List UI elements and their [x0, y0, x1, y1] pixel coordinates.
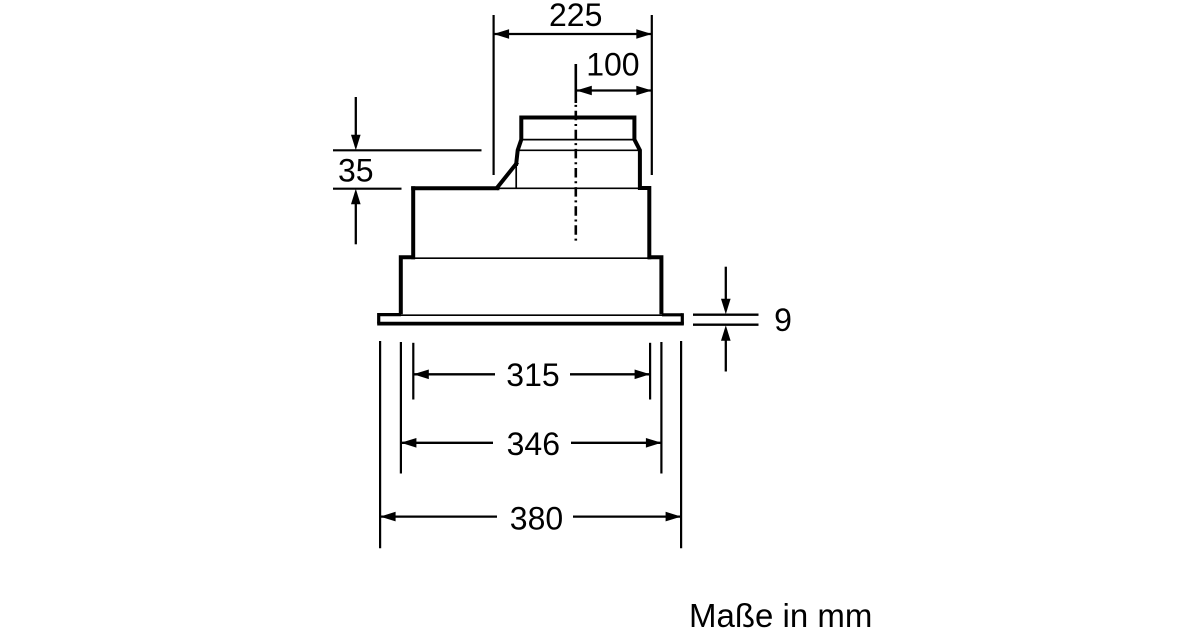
bottom extension line x380 right [680, 341, 682, 548]
dim 346 right arrowhead [646, 438, 662, 448]
wider box top edge (thin) [414, 257, 649, 259]
dim 315 dimension line left segment [413, 373, 495, 375]
wider box left step and edge (thick) [401, 257, 415, 314]
flange top edge right (thick) [662, 313, 682, 316]
svg-text:315: 315 [506, 357, 559, 393]
centerline (dash-dot vertical axis) [574, 64, 577, 244]
upper box top edge under collar (thin) [497, 187, 640, 189]
flange bottom edge (thick) [377, 322, 684, 326]
svg-text:380: 380 [510, 500, 563, 536]
dim 9 upper line [693, 314, 759, 316]
collar inner edge vertical (thin) [515, 164, 517, 189]
dim 100 right arrowhead [636, 86, 652, 96]
dim 35 lower arrow shaft [355, 202, 357, 244]
svg-text:225: 225 [549, 0, 602, 33]
dim 9 lower arrow shaft [725, 339, 727, 372]
bottom extension line x315 left [412, 343, 414, 400]
dim 35 upper arrowhead [351, 135, 361, 151]
flange top edge left (thick) [379, 313, 401, 316]
wider box right step and edge (thick) [648, 257, 661, 314]
dim 9 upper arrowhead [721, 299, 731, 315]
dim 346 dimension line right segment [571, 442, 661, 444]
bottom extension line x346 right [660, 342, 662, 474]
dim 315 dimension line right segment [570, 373, 650, 375]
bottom extension line x315 right [649, 343, 651, 400]
dim 100 left arrowhead [576, 86, 592, 96]
dim 100 dimension line [576, 89, 652, 91]
svg-text:Maße in mm: Maße in mm [689, 597, 872, 630]
dim 225 right arrowhead [636, 29, 652, 39]
dim 380 dimension line right segment [573, 515, 681, 517]
dim 9 lower arrowhead [721, 325, 731, 341]
svg-text:35: 35 [338, 152, 374, 188]
dim 9 lower line [693, 324, 759, 326]
dim 225 left arrowhead [494, 29, 510, 39]
dim 9 upper arrow shaft [725, 267, 727, 301]
flange top edge middle (thin) [401, 314, 662, 316]
dim 35 upper extension line [333, 149, 482, 151]
flange right end cap (thick) [681, 313, 684, 324]
dim 346 left arrowhead [401, 438, 417, 448]
upper box left edge (thick) [411, 188, 415, 257]
dim 315 right arrowhead [635, 370, 651, 380]
dim 315 left arrowhead [413, 370, 429, 380]
dim 225 dimension line [494, 33, 652, 35]
flange left end cap (thick) [377, 313, 380, 324]
dim 35 lower extension line [333, 188, 402, 190]
dim 380 left arrowhead [380, 512, 396, 522]
bottom extension line x380 left [379, 341, 381, 548]
dim 380 right arrowhead [666, 512, 682, 522]
svg-text:100: 100 [586, 46, 639, 82]
dim 35 lower arrowhead [351, 189, 361, 205]
svg-text:346: 346 [507, 426, 560, 462]
funnel slant (thick) [497, 164, 516, 188]
svg-text:9: 9 [774, 302, 792, 338]
dim 225 left extension line [493, 15, 495, 175]
collar flare line lower (thin) [517, 149, 641, 151]
duct collar outline (thick) [516, 118, 649, 258]
bottom extension line x346 left [400, 342, 402, 474]
dim 346 dimension line left segment [401, 442, 493, 444]
collar flare line upper (thin) [523, 139, 634, 141]
upper box top edge left (thick) [413, 186, 497, 190]
dim 35 upper arrow shaft [355, 97, 357, 137]
dim 225 right extension line [651, 15, 653, 175]
dim 380 dimension line left segment [380, 515, 497, 517]
